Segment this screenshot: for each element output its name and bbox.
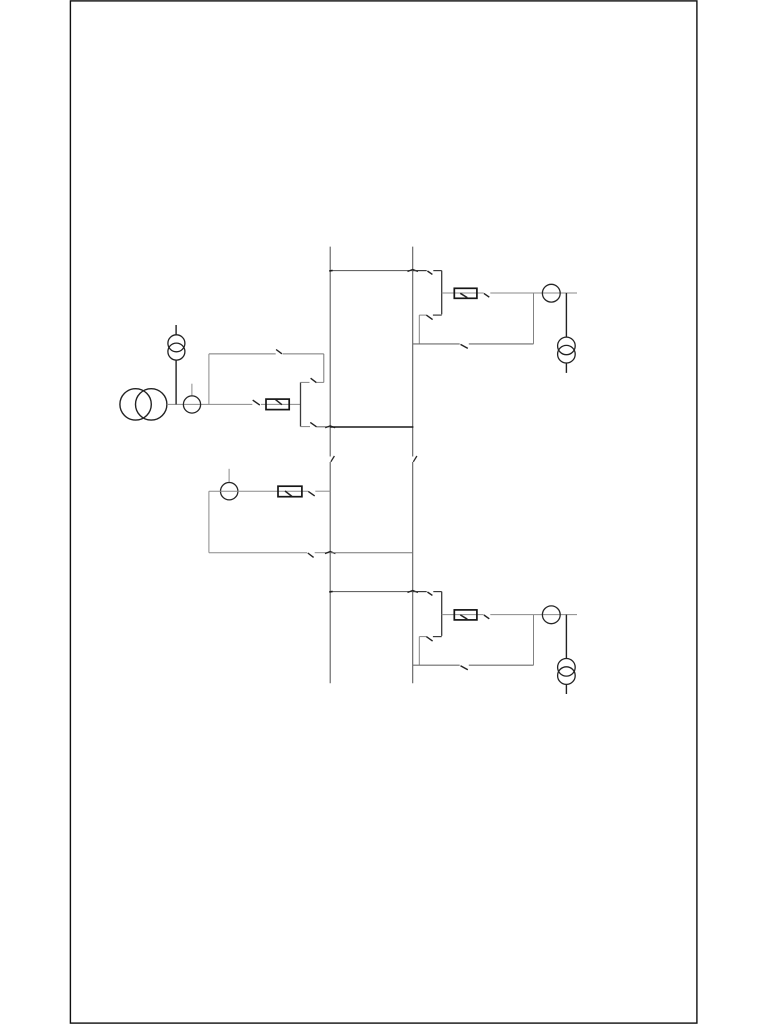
wire: fork stem xyxy=(300,382,302,426)
fuse-switch box F2 xyxy=(454,610,477,620)
auxiliary transformer stub above xyxy=(175,325,177,335)
transformer T3 lower winding xyxy=(558,667,576,685)
disconnector QB2 blade xyxy=(426,315,432,320)
node junction tick at W1 xyxy=(325,552,335,554)
disconnector Q1 blade xyxy=(253,400,260,405)
wire: bay A fork lower to corner xyxy=(419,314,426,316)
wire: vertical drop to transformer T3 xyxy=(565,615,567,659)
instrument circle (meter) xyxy=(542,284,560,302)
disconnector Q3 blade xyxy=(276,350,282,354)
voltage transformer stub xyxy=(228,469,230,483)
wire: middle bay bottom line xyxy=(209,552,307,554)
fuse-switch F2 blade xyxy=(460,615,467,619)
transformer T2 lower winding xyxy=(558,345,576,363)
wire: bay A bottom line after switch xyxy=(469,343,534,345)
wire: bay B bottom line from W2 xyxy=(413,664,460,666)
disconnector Q2 blade xyxy=(311,378,317,383)
voltage transformer stub xyxy=(191,384,193,396)
instrument circle (meter) on main line xyxy=(183,396,200,413)
wire: vertical drop to transformer T2 xyxy=(565,293,567,337)
disconnector Q4 blade xyxy=(310,422,316,426)
wire: fork upper to corner xyxy=(317,381,324,383)
wire: bay A top line from W2 to switch xyxy=(413,270,427,272)
node junction tick at W2 xyxy=(408,590,418,592)
wire: bus tie W1 to W2 xyxy=(330,426,413,428)
wire: to busbar W1 xyxy=(315,490,330,492)
disconnector QB6 blade xyxy=(484,615,489,619)
disconnector Q5 blade xyxy=(308,491,314,496)
wire: bottom line W1 to W2 xyxy=(330,552,413,554)
auxiliary transformer lower winding xyxy=(168,343,185,360)
disconnector Q6 blade xyxy=(308,553,314,557)
wire: middle bay line xyxy=(209,490,308,492)
wire: bay B bottom line after switch xyxy=(469,664,534,666)
fuse-switch F4 blade xyxy=(285,491,292,496)
wire: bay A fork vertical xyxy=(441,271,443,315)
wire: bay B top line from W2 to switch xyxy=(413,591,427,593)
transformer T1 left winding xyxy=(120,389,151,420)
wire: bay A fuse line xyxy=(442,292,484,294)
wire: bay A fork lower horizontal xyxy=(433,314,442,316)
transformer T2 upper winding xyxy=(558,337,576,355)
disconnector QB3 blade xyxy=(484,293,489,297)
wire: stub below T3 xyxy=(565,684,567,694)
earthing switch blade xyxy=(461,666,468,670)
wire: aux transformer drop to main line xyxy=(175,360,177,404)
instrument circle (meter) xyxy=(542,606,560,624)
node junction nub at W1 xyxy=(329,269,332,272)
wire: fork lower horizontal xyxy=(301,426,311,428)
wire: bay B fuse line xyxy=(442,614,484,616)
busbar W2 (right, upper segment) xyxy=(412,247,414,457)
wire: bay A bottom line from W2 xyxy=(413,343,460,345)
instrument circle (meter) xyxy=(221,483,238,500)
busbar W2 section switch blade xyxy=(413,456,417,462)
wire: main line after switch xyxy=(261,403,301,405)
wire: bay B fork lower horizontal xyxy=(433,636,442,638)
wire: riser from bottom line to fuse line xyxy=(533,615,535,666)
busbar W1 (left, lower segment) xyxy=(329,462,331,683)
wire: riser from bottom line to fuse line xyxy=(533,293,535,344)
wire: bypass left riser xyxy=(208,354,210,405)
wire: bay B fork vertical xyxy=(441,592,443,636)
wire: bay B fork lower to corner xyxy=(419,636,426,638)
wire: riser down to earth line xyxy=(418,315,420,344)
transformer T1 right winding xyxy=(136,389,167,420)
busbar W1 (left, upper segment) xyxy=(329,247,331,457)
node junction tick at W1 xyxy=(325,426,335,428)
disconnector QB5 blade xyxy=(426,637,432,642)
disconnector QB4 blade xyxy=(427,592,432,595)
disconnector QB1 blade xyxy=(427,271,432,274)
fuse-switch F3 blade xyxy=(276,400,282,405)
fuse-switch F1 blade xyxy=(460,293,467,297)
wire: bay B top line after switch xyxy=(433,591,441,593)
fuse-switch box F3 xyxy=(266,399,289,410)
wire: riser down to earth line xyxy=(418,637,420,666)
fuse-switch box F1 xyxy=(454,288,477,298)
earthing switch blade xyxy=(461,344,468,348)
fuse-switch box F4 xyxy=(278,486,302,497)
wire: middle bay left riser xyxy=(208,491,210,553)
wire: fork upper horizontal xyxy=(301,381,310,383)
wire: bypass top line left part xyxy=(209,353,276,355)
node junction tick at W2 xyxy=(408,269,418,271)
wire: bay A top line from W1 to W2 xyxy=(330,270,413,272)
wire: fork lower to busbar W1 xyxy=(317,426,331,428)
wire: stub below T2 xyxy=(565,363,567,373)
wire: bay A top line after switch xyxy=(433,270,441,272)
auxiliary transformer upper winding xyxy=(168,335,185,352)
wire: riser to bypass line xyxy=(323,354,325,383)
wire: bay B top line from W1 to W2 xyxy=(330,591,413,593)
wire: bottom line after switch xyxy=(315,552,331,554)
wire: bypass top line right part xyxy=(283,353,324,355)
busbar W1 section switch blade xyxy=(331,456,335,462)
transformer T3 upper winding xyxy=(558,659,576,677)
wire: main line from T1 xyxy=(167,403,252,405)
node junction nub at W1 xyxy=(329,590,332,593)
busbar W2 (right, lower segment) xyxy=(412,462,414,683)
